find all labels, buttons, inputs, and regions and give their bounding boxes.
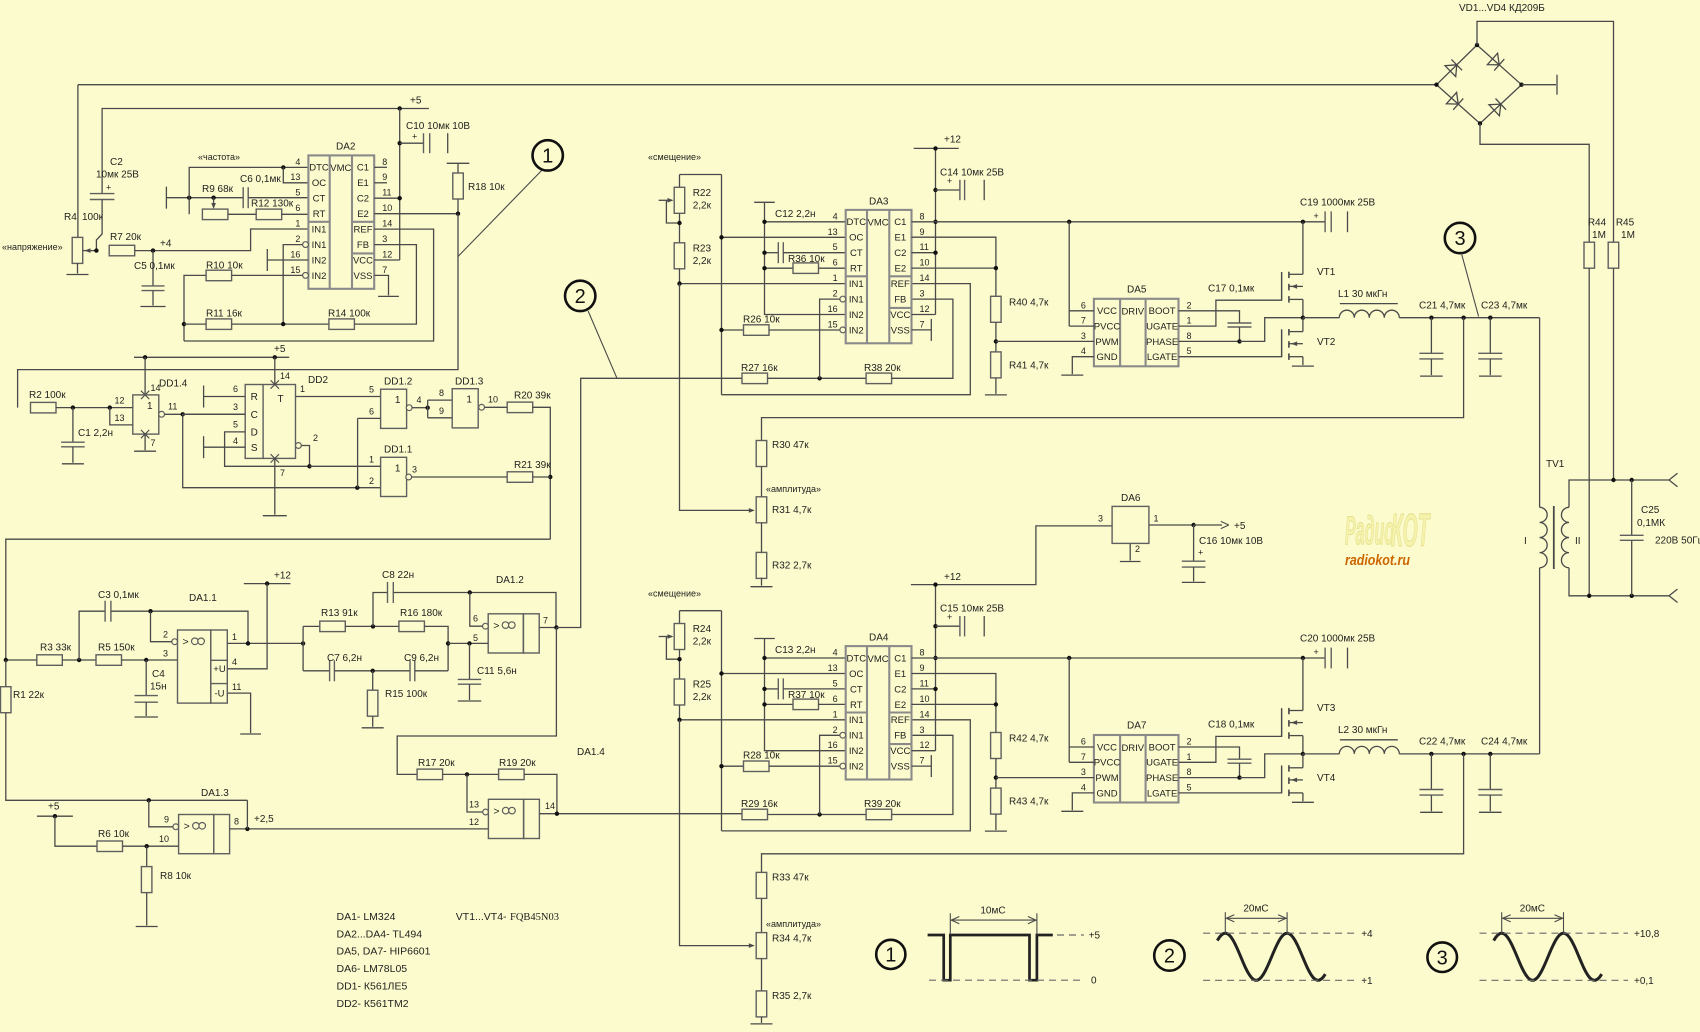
svg-text:R21 39к: R21 39к bbox=[514, 460, 551, 471]
svg-text:3: 3 bbox=[920, 289, 925, 299]
svg-text:DA1.2: DA1.2 bbox=[496, 575, 524, 586]
svg-text:3: 3 bbox=[1437, 947, 1448, 969]
wire top rail to diode bridge bbox=[78, 84, 1437, 86]
svg-text:II: II bbox=[1575, 536, 1581, 547]
svg-text:«частота»: «частота» bbox=[198, 152, 240, 162]
resistor R11 bbox=[206, 319, 232, 330]
svg-text:15: 15 bbox=[290, 265, 300, 275]
svg-text:R9 68к: R9 68к bbox=[202, 184, 234, 195]
wire E1 E2 to R40 bbox=[912, 674, 996, 733]
svg-text:7: 7 bbox=[920, 756, 925, 766]
wire R12 to pin6 bbox=[282, 213, 309, 215]
svg-text:-U: -U bbox=[214, 689, 224, 700]
wire VCC PVCC riser bbox=[1068, 222, 1070, 326]
svg-text:DA1.4: DA1.4 bbox=[577, 747, 605, 758]
svg-text:1: 1 bbox=[395, 395, 401, 406]
svg-text:+10,8: +10,8 bbox=[1634, 929, 1660, 940]
svg-text:DA6: DA6 bbox=[1121, 493, 1141, 504]
op IC DA3 TL494 body bbox=[828, 197, 930, 344]
wire R14 to FB bbox=[354, 245, 416, 325]
svg-text:9: 9 bbox=[439, 406, 444, 416]
svg-text:C18 0,1мк: C18 0,1мк bbox=[1208, 720, 1255, 731]
svg-text:220В 50Гц: 220В 50Гц bbox=[1655, 536, 1700, 547]
svg-text:VT4: VT4 bbox=[1317, 773, 1336, 784]
svg-text:5: 5 bbox=[833, 242, 838, 252]
svg-text:REF: REF bbox=[891, 279, 910, 290]
svg-text:R42 4,7к: R42 4,7к bbox=[1009, 734, 1049, 745]
wiper R24 bbox=[659, 636, 672, 638]
wire VSS tick bbox=[912, 765, 932, 767]
svg-text:2: 2 bbox=[313, 433, 318, 443]
svg-text:VT1...VT4-: VT1...VT4- bbox=[456, 911, 507, 923]
wire node to pin13 bbox=[467, 774, 483, 812]
wire BOOT to C17 bbox=[1179, 311, 1240, 323]
resistor R28 bbox=[722, 765, 744, 767]
svg-text:E2: E2 bbox=[357, 209, 369, 220]
wire DA1.1 output bbox=[227, 642, 303, 644]
transistor VT4 bbox=[1282, 765, 1336, 796]
svg-text:R20 39к: R20 39к bbox=[514, 391, 551, 402]
core TV1 bbox=[1553, 506, 1555, 569]
node +5 C10 bbox=[398, 106, 402, 110]
wire DA1.4 output bbox=[540, 813, 742, 815]
svg-text:6: 6 bbox=[833, 258, 838, 268]
wire PWM line bbox=[996, 777, 1094, 779]
wire DA6 pin2 ground bbox=[1129, 543, 1131, 560]
wire R16 right riser bbox=[424, 626, 448, 670]
svg-text:1: 1 bbox=[466, 395, 472, 406]
wire C7 to C9 bbox=[334, 670, 410, 672]
svg-text:4: 4 bbox=[1081, 346, 1086, 356]
svg-text:E2: E2 bbox=[894, 700, 906, 711]
terminal tick IN2 pin16 bbox=[267, 259, 308, 261]
svg-text:+5: +5 bbox=[48, 802, 60, 813]
wire PHASE bbox=[1179, 340, 1240, 342]
svg-text:11: 11 bbox=[382, 188, 391, 198]
svg-text:IN1: IN1 bbox=[849, 715, 864, 726]
node R4 wiper bbox=[94, 248, 98, 252]
capacitor C11 bbox=[469, 643, 471, 679]
waveform 3 dashes top bbox=[1480, 932, 1629, 934]
svg-text:11: 11 bbox=[920, 242, 929, 252]
wire R4 wiper bbox=[83, 250, 96, 252]
resistor R12 bbox=[256, 209, 282, 220]
svg-text:VT2: VT2 bbox=[1317, 337, 1336, 348]
capacitor C15 bbox=[936, 625, 960, 627]
wire pin11 ground bbox=[227, 693, 250, 733]
svg-text:«смещение»: «смещение» bbox=[648, 152, 701, 162]
svg-text:+: + bbox=[106, 183, 111, 193]
svg-text:8: 8 bbox=[1187, 331, 1192, 341]
svg-text:4: 4 bbox=[416, 395, 421, 405]
svg-text:VCC: VCC bbox=[1097, 742, 1117, 753]
svg-text:>: > bbox=[183, 636, 189, 648]
wire C2 to R7 node bbox=[96, 200, 102, 251]
svg-text:C1: C1 bbox=[357, 163, 369, 174]
svg-text:PVCC: PVCC bbox=[1094, 322, 1121, 333]
wire REF loop bbox=[184, 229, 434, 341]
potentiometer R34 bbox=[756, 933, 767, 959]
svg-text:1: 1 bbox=[369, 454, 374, 464]
svg-text:BOOT: BOOT bbox=[1149, 306, 1176, 317]
capacitor C2 bbox=[90, 193, 115, 195]
op IC DA4 TL494 body bbox=[828, 633, 930, 780]
wiper R22 bbox=[659, 199, 672, 201]
svg-text:I: I bbox=[1524, 536, 1527, 547]
waveform circle 1 bbox=[876, 940, 905, 969]
callout line 1 bbox=[458, 170, 543, 257]
wire R44 down bbox=[1588, 268, 1590, 596]
resistor R16 bbox=[399, 621, 425, 632]
wire bridge diamond bbox=[1437, 45, 1522, 124]
wire VT2 drain bbox=[1302, 318, 1304, 332]
svg-text:R37 10к: R37 10к bbox=[788, 690, 825, 701]
stub pin8 bbox=[374, 166, 387, 168]
svg-text:+5: +5 bbox=[1234, 521, 1246, 532]
svg-text:R3 33к: R3 33к bbox=[40, 643, 72, 654]
svg-text:DA5: DA5 bbox=[1127, 284, 1147, 295]
resistor R37 bbox=[765, 703, 794, 705]
capacitor C25 bbox=[1631, 480, 1633, 535]
wire C1 long line bbox=[912, 657, 1326, 659]
svg-text:1: 1 bbox=[833, 709, 838, 719]
svg-text:C5 0,1мк: C5 0,1мк bbox=[134, 261, 175, 272]
svg-text:R5 150к: R5 150к bbox=[98, 643, 135, 654]
svg-text:2,2к: 2,2к bbox=[693, 692, 712, 703]
svg-text:FB: FB bbox=[894, 731, 906, 742]
svg-text:R43 4,7к: R43 4,7к bbox=[1009, 797, 1049, 808]
wire DD1.2 pin6 bbox=[358, 417, 381, 419]
diode VD4 bbox=[1489, 104, 1501, 116]
op IC DA5 HIP6601 body bbox=[1081, 284, 1192, 366]
resistor R5 bbox=[96, 655, 122, 666]
wire R34 R35 bbox=[761, 959, 763, 991]
callout line 3 bbox=[1461, 253, 1478, 316]
svg-text:+: + bbox=[1314, 647, 1319, 657]
wire PWM line bbox=[996, 340, 1094, 342]
wire BOOT to C18 bbox=[1179, 747, 1240, 759]
wire GND DA5 bbox=[1072, 357, 1094, 374]
svg-text:2: 2 bbox=[1164, 946, 1175, 968]
svg-text:C9 6,2н: C9 6,2н bbox=[404, 653, 439, 664]
svg-text:6: 6 bbox=[833, 694, 838, 704]
svg-text:C1 2,2н: C1 2,2н bbox=[78, 428, 113, 439]
svg-text:C16 10мк 10В: C16 10мк 10В bbox=[1199, 536, 1263, 547]
resistor R27 bbox=[742, 373, 768, 384]
wire DA1.2 out down to R17 bbox=[397, 628, 556, 775]
svg-text:R45: R45 bbox=[1616, 218, 1635, 229]
svg-text:14: 14 bbox=[545, 801, 555, 811]
svg-text:R12 130к: R12 130к bbox=[251, 199, 294, 210]
resistor R38 bbox=[866, 373, 892, 384]
capacitor C22 bbox=[1430, 754, 1432, 790]
resistor R36 bbox=[765, 267, 794, 269]
svg-text:7: 7 bbox=[151, 438, 156, 448]
svg-text:DA4: DA4 bbox=[869, 633, 889, 644]
svg-text:C19 1000мк 25В: C19 1000мк 25В bbox=[1300, 198, 1376, 209]
resistor R25 bbox=[674, 679, 685, 705]
callout circle 2 bbox=[565, 281, 595, 311]
wire R31 wiper net bbox=[680, 284, 754, 511]
svg-text:R7 20к: R7 20к bbox=[110, 232, 142, 243]
capacitor C6 bbox=[242, 187, 244, 208]
wire left loop to R3 bbox=[6, 539, 551, 660]
svg-text:>: > bbox=[493, 620, 499, 632]
svg-text:«амплитуда»: «амплитуда» bbox=[766, 484, 821, 494]
wire R20 right bbox=[533, 407, 551, 539]
wire C1 long line bbox=[912, 221, 1326, 223]
svg-text:+5: +5 bbox=[1089, 931, 1101, 942]
svg-text:C25: C25 bbox=[1641, 505, 1660, 516]
svg-text:R31 4,7к: R31 4,7к bbox=[772, 505, 812, 516]
waveform 1 pulse bbox=[928, 935, 1053, 980]
wire +12 to pin4 bbox=[227, 584, 267, 669]
svg-text:5: 5 bbox=[369, 385, 374, 395]
node R11 bbox=[182, 322, 186, 326]
resistor R17 bbox=[417, 769, 443, 780]
svg-text:R34 4,7к: R34 4,7к bbox=[772, 934, 812, 945]
svg-text:4: 4 bbox=[232, 657, 237, 667]
svg-text:+5: +5 bbox=[410, 96, 422, 107]
svg-text:>: > bbox=[493, 805, 499, 817]
svg-text:R32 2,7к: R32 2,7к bbox=[772, 561, 812, 572]
svg-text:C1: C1 bbox=[894, 653, 906, 664]
svg-text:2: 2 bbox=[833, 289, 838, 299]
logo radiokot.ru bbox=[1345, 552, 1410, 568]
capacitor C10 bbox=[400, 142, 424, 144]
svg-text:1: 1 bbox=[885, 945, 896, 967]
wire DD1.4 output bbox=[165, 413, 246, 415]
resistor R6 bbox=[97, 841, 123, 852]
svg-text:3: 3 bbox=[163, 649, 168, 659]
svg-text:5: 5 bbox=[295, 188, 300, 198]
svg-text:DD1- К561ЛЕ5: DD1- К561ЛЕ5 bbox=[337, 981, 408, 993]
svg-text:T: T bbox=[277, 394, 283, 405]
svg-text:IN1: IN1 bbox=[312, 240, 327, 251]
svg-text:IN2: IN2 bbox=[312, 255, 327, 266]
svg-text:7: 7 bbox=[1081, 752, 1086, 762]
gate DD1.4 bbox=[133, 395, 159, 434]
svg-text:10: 10 bbox=[920, 258, 930, 268]
wire R11 line bbox=[184, 323, 206, 325]
svg-text:10мС: 10мС bbox=[980, 906, 1005, 917]
supply +5 R6 bbox=[37, 815, 73, 817]
svg-text:R17 20к: R17 20к bbox=[418, 758, 455, 769]
svg-text:BOOT: BOOT bbox=[1149, 742, 1176, 753]
wire VT2 source ground bbox=[1302, 357, 1304, 365]
svg-text:2,2к: 2,2к bbox=[693, 201, 712, 212]
supply +12 DA1.1 bbox=[244, 583, 291, 585]
svg-text:R33 47к: R33 47к bbox=[772, 873, 809, 884]
wire pin6 DA1.2 bbox=[483, 623, 489, 629]
waveform 2 dashes top bbox=[1203, 932, 1355, 934]
svg-text:DA5, DA7- HIP6601: DA5, DA7- HIP6601 bbox=[337, 946, 431, 958]
waveform circle 3 bbox=[1427, 942, 1457, 972]
svg-text:15н: 15н bbox=[150, 682, 167, 693]
wire R27 to R38 bbox=[768, 377, 866, 379]
svg-text:1: 1 bbox=[232, 632, 237, 642]
wire VCC riser bbox=[399, 109, 401, 261]
svg-text:PWM: PWM bbox=[1095, 773, 1118, 784]
wire C3 branch bbox=[79, 611, 105, 660]
svg-text:2: 2 bbox=[1187, 737, 1192, 747]
svg-text:7: 7 bbox=[280, 468, 285, 478]
svg-text:R35 2,7к: R35 2,7к bbox=[772, 991, 812, 1002]
wire R10 left down bbox=[184, 275, 206, 341]
wire LGATE bbox=[1179, 766, 1282, 793]
svg-text:VMC: VMC bbox=[868, 654, 889, 665]
svg-text:R36 10к: R36 10к bbox=[788, 254, 825, 265]
wire R33 R34 bbox=[761, 898, 763, 932]
wire DA6 output bbox=[1149, 524, 1194, 526]
svg-text:C21 4,7мк: C21 4,7мк bbox=[1419, 301, 1466, 312]
svg-text:L1 30 мкГн: L1 30 мкГн bbox=[1338, 289, 1387, 300]
capacitor C14 bbox=[936, 189, 960, 191]
wire R21 to node bbox=[533, 476, 551, 478]
svg-text:GND: GND bbox=[1096, 352, 1117, 363]
capacitor C8 bbox=[387, 582, 389, 603]
wire R38 to FB bbox=[892, 735, 953, 814]
svg-text:RT: RT bbox=[850, 264, 863, 275]
wire IN1 line bbox=[680, 283, 846, 285]
connector output top bbox=[1669, 473, 1678, 480]
svg-text:0: 0 bbox=[1091, 976, 1097, 987]
svg-text:DTC: DTC bbox=[847, 217, 867, 228]
wire VT2 source ground bbox=[1302, 793, 1304, 801]
terminal tick CT line bbox=[165, 187, 167, 209]
svg-text:PHASE: PHASE bbox=[1146, 337, 1178, 348]
svg-text:RT: RT bbox=[850, 700, 863, 711]
capacitor C9 bbox=[409, 660, 411, 681]
wire net1 drop bbox=[18, 214, 458, 408]
svg-text:PHASE: PHASE bbox=[1146, 773, 1178, 784]
svg-text:3: 3 bbox=[1081, 767, 1086, 777]
resistor R26 bbox=[722, 329, 744, 331]
svg-text:R40 4,7к: R40 4,7к bbox=[1009, 298, 1049, 309]
capacitor C19 bbox=[1324, 211, 1326, 232]
svg-text:DD2: DD2 bbox=[308, 375, 328, 386]
waveform circle 2 bbox=[1154, 940, 1184, 970]
wire +12 vertical bbox=[935, 585, 937, 751]
svg-text:R22: R22 bbox=[693, 188, 712, 199]
svg-text:IN1: IN1 bbox=[849, 279, 864, 290]
svg-text:«напряжение»: «напряжение» bbox=[2, 242, 63, 252]
svg-text:TV1: TV1 bbox=[1546, 459, 1565, 470]
svg-text:КОТ: КОТ bbox=[1391, 506, 1431, 557]
svg-text:VSS: VSS bbox=[891, 325, 910, 336]
diode VD2 bbox=[1487, 53, 1499, 65]
op IC DA2 TL494 body bbox=[290, 142, 392, 289]
svg-text:DTC: DTC bbox=[847, 653, 867, 664]
waveform 1 dimension bbox=[949, 913, 951, 934]
wire R13 to R16 bbox=[345, 625, 399, 627]
wire R9 to R12 bbox=[228, 213, 256, 215]
wire secondary bottom bbox=[1569, 568, 1669, 596]
resistor R10 bbox=[206, 270, 232, 281]
wire VT1 drain bbox=[1302, 222, 1304, 274]
logo Радио КОТ bbox=[1345, 509, 1394, 554]
wire R40 R41 node bbox=[995, 322, 997, 352]
svg-text:16: 16 bbox=[828, 740, 838, 750]
svg-text:VCC: VCC bbox=[353, 255, 373, 266]
wire R6 to pin10 bbox=[123, 845, 179, 847]
transistor VT2 bbox=[1282, 329, 1336, 360]
wire C8 branch bbox=[373, 593, 388, 627]
winding I bbox=[1540, 507, 1548, 567]
svg-text:CT: CT bbox=[850, 684, 863, 695]
resistor R8 bbox=[146, 846, 148, 866]
resistor R19 bbox=[499, 769, 524, 780]
svg-text:3: 3 bbox=[1081, 331, 1086, 341]
ground R35 bbox=[761, 1017, 763, 1023]
svg-text:CT: CT bbox=[850, 248, 863, 259]
svg-text:8: 8 bbox=[382, 157, 387, 167]
svg-text:R29 16к: R29 16к bbox=[741, 799, 778, 810]
svg-text:4: 4 bbox=[233, 436, 238, 446]
svg-text:+12: +12 bbox=[274, 571, 291, 582]
wire C17 to PHASE bbox=[1239, 763, 1241, 777]
svg-text:3: 3 bbox=[1454, 228, 1465, 250]
stub pin9 bbox=[374, 182, 387, 184]
resistor R1 bbox=[5, 660, 7, 687]
wire return rail bbox=[762, 754, 1464, 873]
wire LGATE bbox=[1179, 329, 1282, 356]
wire output risers bbox=[302, 626, 304, 670]
svg-text:R10 10к: R10 10к bbox=[206, 261, 243, 272]
svg-text:2: 2 bbox=[1135, 544, 1140, 554]
svg-text:7: 7 bbox=[382, 265, 387, 275]
svg-text:20мС: 20мС bbox=[1243, 904, 1268, 915]
op-amp DA1.1 bbox=[178, 630, 228, 703]
wire net2 riser bbox=[556, 378, 741, 627]
wire R27 to R38 bbox=[768, 814, 866, 816]
waveform 3 dashes bottom bbox=[1480, 979, 1629, 981]
svg-text:IN1: IN1 bbox=[312, 225, 327, 236]
resistor R41 bbox=[991, 352, 1002, 378]
svg-text:+4: +4 bbox=[1361, 929, 1373, 940]
svg-text:DD1.2: DD1.2 bbox=[384, 377, 413, 388]
svg-text:+12: +12 bbox=[944, 572, 961, 583]
svg-text:1: 1 bbox=[147, 401, 153, 412]
wire output line bbox=[1399, 753, 1539, 755]
wire REF loop bbox=[722, 720, 971, 831]
svg-text:+2,5: +2,5 bbox=[254, 814, 274, 825]
potentiometer R22 bbox=[680, 174, 722, 176]
svg-text:L2 30 мкГн: L2 30 мкГн bbox=[1338, 725, 1387, 736]
wire +5 to R6 bbox=[55, 816, 97, 846]
svg-text:C10 10мк 10В: C10 10мк 10В bbox=[406, 121, 470, 132]
svg-text:2: 2 bbox=[295, 234, 300, 244]
resistor R2 bbox=[31, 402, 57, 413]
svg-text:1: 1 bbox=[1154, 514, 1159, 524]
svg-text:VMC: VMC bbox=[868, 218, 889, 229]
svg-text:R28 10к: R28 10к bbox=[743, 751, 780, 762]
svg-text:C17 0,1мк: C17 0,1мк bbox=[1208, 284, 1255, 295]
wire VSS ground DA2 bbox=[374, 275, 388, 295]
svg-text:UGATE: UGATE bbox=[1146, 758, 1178, 769]
svg-text:1: 1 bbox=[1187, 752, 1192, 762]
svg-text:DD2- К561ТМ2: DD2- К561ТМ2 bbox=[337, 998, 409, 1010]
svg-text:8: 8 bbox=[1187, 767, 1192, 777]
svg-text:R24: R24 bbox=[693, 624, 712, 635]
svg-text:9: 9 bbox=[920, 663, 925, 673]
resistor R29 bbox=[742, 809, 768, 820]
svg-text:R16 180к: R16 180к bbox=[400, 608, 443, 619]
svg-text:5: 5 bbox=[1187, 346, 1192, 356]
resistor R18 bbox=[447, 162, 470, 164]
svg-text:VT1: VT1 bbox=[1317, 267, 1336, 278]
svg-text:C2: C2 bbox=[894, 248, 906, 259]
